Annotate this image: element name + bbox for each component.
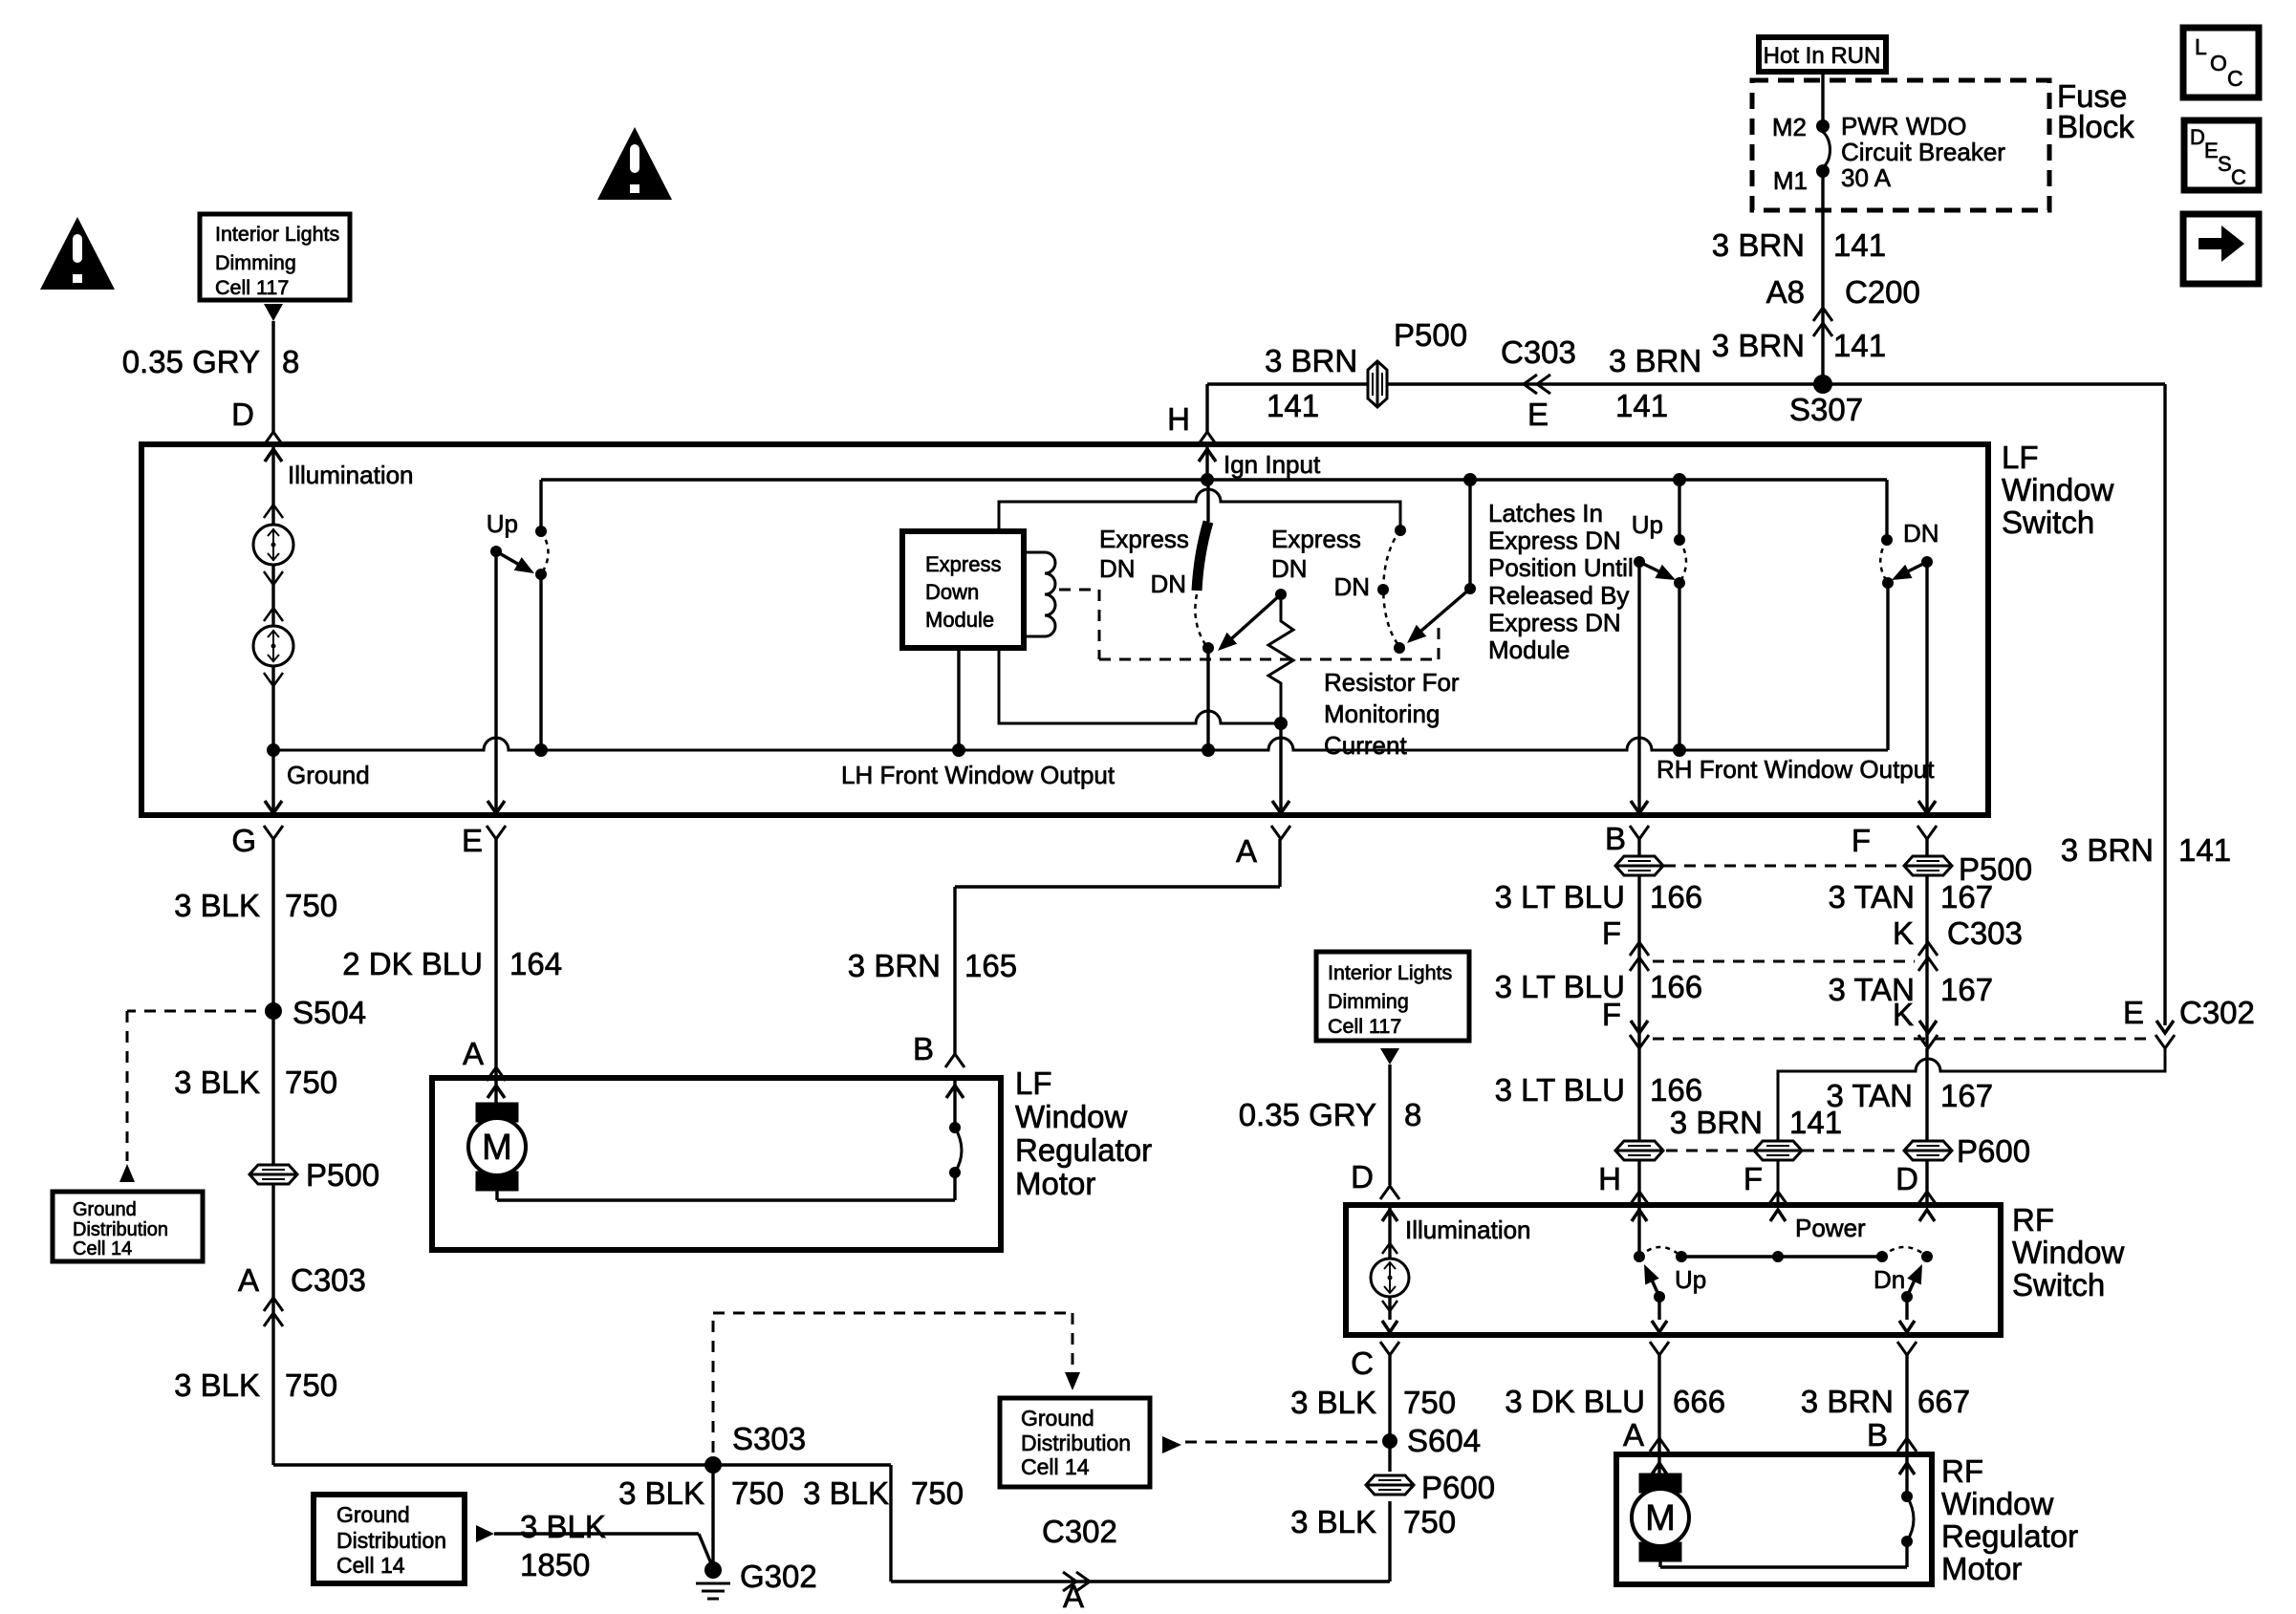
svg-text:Express: Express (925, 552, 1001, 576)
svg-text:RF: RF (2012, 1202, 2054, 1237)
svg-text:3 BRN: 3 BRN (1670, 1105, 1763, 1140)
svg-text:Ground: Ground (336, 1502, 410, 1527)
svg-text:Window: Window (1941, 1486, 2054, 1521)
svg-text:667: 667 (1917, 1384, 1970, 1419)
svg-text:Power: Power (1795, 1214, 1866, 1242)
svg-text:L: L (2195, 34, 2207, 59)
svg-text:3 BRN: 3 BRN (1801, 1384, 1894, 1419)
svg-text:LH Front Window Output: LH Front Window Output (841, 761, 1116, 789)
svg-text:Distribution: Distribution (336, 1528, 446, 1553)
svg-text:F: F (1852, 823, 1871, 858)
svg-text:Express: Express (1099, 525, 1189, 553)
svg-text:S604: S604 (1407, 1423, 1481, 1458)
svg-text:DN: DN (1099, 554, 1136, 583)
svg-text:Position Until: Position Until (1488, 553, 1634, 582)
svg-text:Ground: Ground (1021, 1406, 1094, 1431)
svg-text:B: B (1867, 1417, 1888, 1453)
svg-text:K: K (1893, 997, 1914, 1032)
svg-text:E: E (1527, 397, 1549, 432)
svg-text:H: H (1167, 401, 1190, 437)
svg-text:3 LT BLU: 3 LT BLU (1495, 1072, 1625, 1108)
svg-text:S307: S307 (1789, 392, 1863, 427)
svg-text:DN: DN (1333, 572, 1370, 601)
svg-text:Regulator: Regulator (1941, 1518, 2078, 1554)
svg-text:Window: Window (2012, 1235, 2125, 1270)
svg-text:3 BLK: 3 BLK (174, 1367, 260, 1403)
svg-text:PWR WDO: PWR WDO (1841, 112, 1966, 140)
svg-text:M1: M1 (1773, 166, 1808, 195)
svg-text:Hot In RUN: Hot In RUN (1764, 43, 1881, 69)
svg-text:3 BLK: 3 BLK (174, 888, 260, 923)
svg-text:666: 666 (1673, 1384, 1725, 1419)
svg-text:3 LT BLU: 3 LT BLU (1495, 879, 1625, 915)
svg-text:141: 141 (2178, 832, 2231, 868)
svg-text:Ign Input: Ign Input (1224, 450, 1321, 479)
svg-text:Block: Block (2057, 109, 2134, 144)
svg-text:30 A: 30 A (1841, 163, 1892, 192)
svg-text:S: S (2218, 152, 2232, 176)
svg-text:1850: 1850 (520, 1547, 590, 1582)
svg-text:F: F (1602, 915, 1621, 951)
svg-text:0.35 GRY: 0.35 GRY (122, 344, 260, 379)
svg-text:Up: Up (1675, 1265, 1706, 1294)
svg-text:C303: C303 (1947, 915, 2023, 951)
svg-text:E: E (2123, 995, 2144, 1030)
svg-text:C302: C302 (1042, 1514, 1117, 1549)
svg-text:0.35 GRY: 0.35 GRY (1239, 1097, 1376, 1132)
svg-text:C303: C303 (1501, 334, 1576, 370)
svg-text:750: 750 (285, 1367, 337, 1403)
svg-text:Illumination: Illumination (288, 461, 414, 489)
svg-text:S303: S303 (732, 1421, 806, 1456)
svg-text:M: M (1645, 1498, 1676, 1539)
svg-text:750: 750 (285, 888, 337, 923)
svg-text:Distribution: Distribution (73, 1219, 168, 1240)
svg-text:A: A (463, 1036, 484, 1071)
svg-text:166: 166 (1650, 1072, 1702, 1108)
svg-text:3 BLK: 3 BLK (803, 1475, 889, 1511)
svg-text:Ground: Ground (287, 761, 370, 789)
svg-text:Cell 14: Cell 14 (73, 1238, 132, 1259)
svg-text:C200: C200 (1845, 274, 1920, 310)
svg-text:3 BLK: 3 BLK (520, 1509, 606, 1544)
svg-text:P500: P500 (306, 1157, 379, 1193)
svg-text:D: D (231, 397, 254, 432)
svg-text:167: 167 (1940, 972, 1993, 1007)
svg-text:LF: LF (1015, 1065, 1052, 1101)
svg-text:Express DN: Express DN (1488, 527, 1621, 555)
svg-text:Distribution: Distribution (1021, 1431, 1131, 1455)
svg-text:Express DN: Express DN (1488, 608, 1621, 636)
svg-text:O: O (2210, 51, 2227, 75)
svg-text:Ground: Ground (73, 1199, 137, 1220)
svg-text:Cell 14: Cell 14 (1021, 1454, 1090, 1479)
svg-text:DN: DN (1903, 519, 1939, 548)
svg-text:3 BRN: 3 BRN (1609, 343, 1701, 378)
svg-text:D: D (1351, 1159, 1374, 1194)
svg-text:A: A (1623, 1417, 1644, 1453)
svg-text:165: 165 (964, 948, 1017, 983)
svg-text:Regulator: Regulator (1015, 1132, 1152, 1168)
svg-text:3 BLK: 3 BLK (618, 1475, 704, 1511)
svg-text:3 BRN: 3 BRN (1712, 227, 1805, 263)
svg-text:G: G (231, 823, 256, 858)
svg-text:Switch: Switch (2002, 505, 2094, 540)
svg-text:3 BLK: 3 BLK (1290, 1504, 1376, 1539)
svg-text:Cell 117: Cell 117 (215, 276, 289, 299)
svg-text:A: A (1236, 833, 1257, 869)
svg-text:Interior Lights: Interior Lights (1328, 961, 1452, 984)
svg-text:K: K (1893, 915, 1914, 951)
svg-text:Window: Window (2002, 472, 2114, 507)
svg-text:F: F (1744, 1161, 1763, 1196)
svg-text:Down: Down (925, 580, 979, 604)
svg-text:Switch: Switch (2012, 1267, 2105, 1302)
svg-text:B: B (913, 1031, 934, 1066)
svg-text:C302: C302 (2179, 995, 2255, 1030)
svg-text:M: M (482, 1128, 512, 1168)
svg-text:B: B (1605, 821, 1626, 856)
svg-text:C: C (2231, 165, 2246, 189)
svg-text:Motor: Motor (1015, 1166, 1095, 1201)
svg-text:750: 750 (1403, 1504, 1456, 1539)
svg-text:141: 141 (1833, 227, 1886, 263)
svg-text:3 BRN: 3 BRN (1712, 328, 1805, 363)
svg-text:H: H (1598, 1161, 1621, 1196)
svg-text:DN: DN (1271, 554, 1308, 583)
svg-text:DN: DN (1150, 570, 1186, 598)
svg-text:Module: Module (925, 608, 994, 632)
svg-text:E: E (462, 823, 483, 858)
svg-text:2 DK BLU: 2 DK BLU (342, 946, 483, 981)
svg-text:A8: A8 (1766, 274, 1805, 310)
svg-text:Monitoring: Monitoring (1324, 699, 1440, 728)
svg-text:E: E (2204, 139, 2219, 162)
svg-text:166: 166 (1650, 969, 1702, 1004)
svg-text:F: F (1602, 997, 1621, 1032)
svg-text:D: D (1895, 1161, 1918, 1196)
svg-text:C: C (2227, 66, 2243, 91)
svg-text:LF: LF (2002, 440, 2039, 475)
svg-text:8: 8 (282, 344, 299, 379)
svg-text:3 BRN: 3 BRN (848, 948, 941, 983)
svg-text:Circuit Breaker: Circuit Breaker (1841, 138, 2005, 166)
svg-text:C: C (1351, 1345, 1374, 1381)
svg-text:RH Front Window Output: RH Front Window Output (1657, 755, 1935, 784)
svg-text:S504: S504 (292, 995, 366, 1030)
svg-text:Current: Current (1324, 731, 1407, 760)
svg-text:Window: Window (1015, 1099, 1128, 1134)
svg-text:166: 166 (1650, 879, 1702, 915)
svg-text:141: 141 (1789, 1105, 1842, 1140)
svg-text:167: 167 (1940, 1078, 1993, 1113)
svg-text:Up: Up (1632, 510, 1663, 539)
svg-text:141: 141 (1267, 388, 1319, 423)
svg-text:3 DK BLU: 3 DK BLU (1505, 1384, 1645, 1419)
svg-text:Module: Module (1488, 635, 1570, 664)
svg-text:P600: P600 (1421, 1470, 1495, 1505)
svg-text:D: D (2190, 125, 2205, 149)
svg-text:3 BRN: 3 BRN (2061, 832, 2154, 868)
svg-text:3 BLK: 3 BLK (1290, 1385, 1376, 1420)
svg-text:C303: C303 (291, 1262, 366, 1298)
svg-text:3 BLK: 3 BLK (174, 1065, 260, 1100)
svg-text:Cell 14: Cell 14 (336, 1553, 405, 1578)
svg-text:Motor: Motor (1941, 1551, 2022, 1586)
svg-text:750: 750 (911, 1475, 964, 1511)
svg-text:3 BRN: 3 BRN (1265, 343, 1357, 378)
svg-text:G302: G302 (740, 1559, 817, 1594)
svg-text:Interior Lights: Interior Lights (215, 223, 339, 246)
svg-text:Express: Express (1271, 525, 1361, 553)
svg-text:Dn: Dn (1874, 1265, 1905, 1294)
svg-text:Latches In: Latches In (1488, 499, 1603, 527)
svg-text:167: 167 (1940, 879, 1993, 915)
svg-text:3 TAN: 3 TAN (1829, 879, 1915, 915)
svg-text:Dimming: Dimming (215, 251, 296, 274)
svg-text:Resistor For: Resistor For (1324, 668, 1460, 697)
svg-text:164: 164 (509, 946, 562, 981)
svg-text:750: 750 (731, 1475, 784, 1511)
svg-text:P600: P600 (1957, 1133, 2030, 1169)
svg-text:8: 8 (1404, 1097, 1421, 1132)
svg-text:M2: M2 (1772, 113, 1807, 141)
svg-text:RF: RF (1941, 1453, 1983, 1489)
svg-text:A: A (238, 1262, 259, 1298)
svg-text:Illumination: Illumination (1405, 1216, 1531, 1244)
svg-text:141: 141 (1833, 328, 1886, 363)
svg-text:Cell 117: Cell 117 (1328, 1015, 1401, 1038)
svg-text:Up: Up (487, 509, 518, 538)
svg-text:A: A (1063, 1579, 1084, 1609)
svg-text:141: 141 (1615, 388, 1668, 423)
svg-text:750: 750 (285, 1065, 337, 1100)
svg-text:750: 750 (1403, 1385, 1456, 1420)
svg-text:P500: P500 (1394, 317, 1467, 353)
svg-text:Released By: Released By (1488, 581, 1629, 610)
svg-text:Dimming: Dimming (1328, 990, 1409, 1013)
